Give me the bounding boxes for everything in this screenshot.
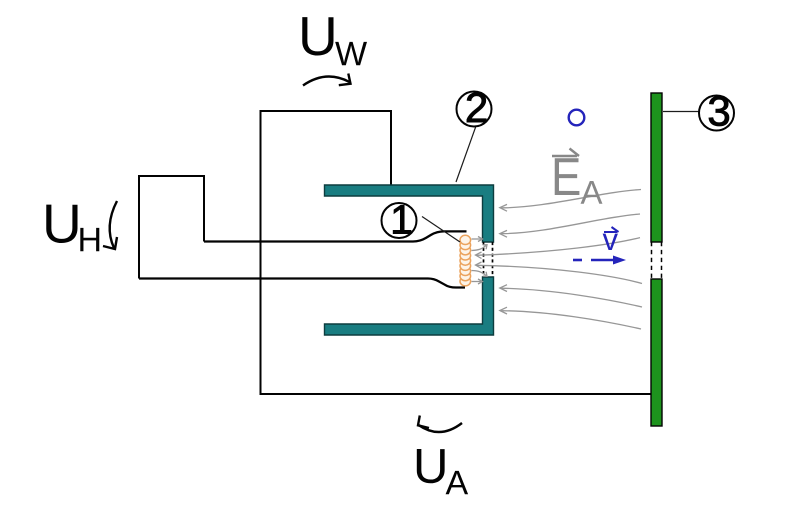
svg-text:v: v: [602, 222, 618, 257]
svg-text:U: U: [42, 193, 82, 255]
label E_A (electric field): [551, 147, 603, 211]
svg-text:A: A: [580, 174, 602, 211]
circled number 1: [382, 196, 417, 242]
electron (blue circle): [569, 110, 585, 126]
svg-text:A: A: [445, 464, 468, 502]
field line 4: [476, 262, 643, 284]
anode plate 3 (lower part): [651, 279, 662, 426]
short field arrow b: [472, 245, 488, 251]
curved arrow U_A: [418, 416, 462, 433]
svg-text:3: 3: [707, 87, 730, 134]
leader line to 3: [663, 111, 700, 113]
circled number 3: [699, 87, 734, 134]
label U_A: [413, 440, 469, 503]
wire heater top lead: [204, 231, 467, 241]
svg-text:U: U: [413, 440, 448, 494]
svg-text:2: 2: [465, 84, 488, 131]
svg-text:H: H: [77, 221, 102, 259]
field line 1: [500, 190, 641, 212]
anode aperture (dashed): [652, 242, 662, 279]
leader line to 2: [456, 126, 476, 182]
field line 3: [476, 238, 641, 259]
short field arrow a: [472, 237, 483, 242]
label v (velocity vector): [602, 222, 618, 257]
wire heater L-shape: [139, 176, 204, 279]
svg-text:1: 1: [390, 196, 413, 242]
field line 2: [500, 214, 640, 237]
label U_H: [42, 193, 102, 260]
curved arrow U_H: [103, 201, 117, 249]
Wehnelt cylinder 2 (upper part): [325, 185, 494, 242]
Wehnelt cylinder 2 (lower part): [325, 277, 494, 335]
Wehnelt aperture (dashed): [484, 242, 493, 277]
filament coil 1: [460, 235, 471, 286]
field line 5: [500, 285, 642, 307]
leader line to 1: [422, 217, 460, 243]
label U_W: [298, 5, 367, 73]
short field arrow c: [472, 271, 488, 277]
velocity arrow (dash + blue arrow): [573, 256, 626, 265]
field line 6: [500, 307, 641, 329]
svg-text:U: U: [298, 5, 338, 67]
curved arrow U_W: [303, 74, 351, 86]
wire heater bottom lead: [139, 279, 465, 288]
wire outer loop (Wehnelt supply and anode supply): [261, 111, 653, 394]
circled number 2: [457, 84, 492, 131]
svg-text:W: W: [335, 35, 367, 73]
short field arrow d: [472, 279, 483, 284]
anode plate 3 (upper part): [651, 93, 662, 242]
